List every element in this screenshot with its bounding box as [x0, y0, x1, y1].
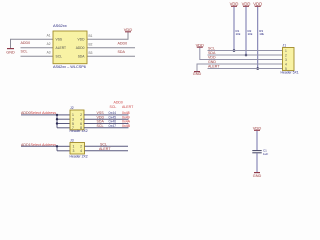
- wire J3 row2 right (ALERT): [85, 150, 129, 152]
- svg-text:2: 2: [80, 145, 82, 149]
- svg-text:AS62xx: AS62xx: [53, 23, 67, 28]
- svg-text:B2: B2: [89, 42, 93, 46]
- svg-text:2: 2: [285, 53, 287, 57]
- IC U1 AS62xx body: [53, 31, 87, 64]
- svg-text:J3: J3: [70, 139, 74, 143]
- wire VDD pin B1: [87, 32, 128, 40]
- wire GND rise: [197, 64, 283, 71]
- wire J2 row1 right (VSS): [84, 114, 129, 116]
- power VDD (feeds bus): [196, 42, 205, 47]
- svg-text:ADD0: ADD0: [114, 101, 123, 105]
- svg-text:A2: A2: [47, 42, 51, 46]
- wire row2 stub: [57, 150, 70, 152]
- svg-text:SDA: SDA: [78, 55, 86, 59]
- resistor R3 (vertical wire to ALERT): [257, 7, 259, 69]
- wire row1 stub: [57, 114, 70, 116]
- svg-text:J2: J2: [70, 106, 74, 110]
- wire ADD0 (left stub to A2): [21, 47, 54, 49]
- svg-text:ALERT: ALERT: [122, 105, 134, 109]
- svg-text:0x47: 0x47: [109, 124, 117, 128]
- junction bus row1: [56, 114, 58, 116]
- svg-text:GND: GND: [193, 72, 202, 76]
- svg-text:ADD0: ADD0: [21, 41, 31, 45]
- svg-text:VDD: VDD: [253, 1, 262, 6]
- capacitor C1: [252, 151, 261, 153]
- ground GND (left of U1): [6, 49, 15, 55]
- wire J2 row4 right (SCL): [84, 127, 129, 129]
- svg-text:7: 7: [72, 126, 74, 130]
- svg-text:SCL: SCL: [110, 105, 117, 109]
- svg-text:8: 8: [80, 126, 82, 130]
- svg-text:GND: GND: [253, 174, 262, 178]
- wire VDD drop: [200, 48, 283, 60]
- wire SDA row: [208, 54, 283, 56]
- svg-text:VDD: VDD: [124, 27, 133, 32]
- ground GND (below bus): [193, 72, 202, 77]
- wire SDA (right stub B3): [87, 55, 135, 57]
- svg-text:SCL: SCL: [100, 142, 107, 146]
- svg-text:4: 4: [285, 62, 287, 66]
- wire SCL row: [208, 50, 283, 52]
- wire row4 stub: [57, 127, 70, 129]
- junction bus row2: [56, 118, 58, 120]
- svg-text:AS62xx – WLCSP6: AS62xx – WLCSP6: [53, 65, 86, 69]
- power VDD (above R2): [242, 1, 251, 6]
- power VDD (above C1): [253, 126, 262, 131]
- svg-text:SDA: SDA: [208, 51, 216, 55]
- wire ADD1 into bus: [21, 145, 57, 147]
- svg-text:0x4B: 0x4B: [122, 124, 131, 128]
- power VDD (right of U1): [124, 27, 133, 32]
- svg-text:ALERT: ALERT: [56, 46, 67, 50]
- junction bus row3: [56, 122, 58, 124]
- svg-text:ALERT: ALERT: [99, 147, 111, 151]
- power VDD (above R1): [230, 1, 239, 6]
- svg-text:ADD0: ADD0: [76, 46, 85, 50]
- svg-text:J1: J1: [283, 44, 287, 48]
- junction bus: [56, 145, 58, 147]
- wire J3 row1 right (SCL): [85, 145, 129, 147]
- connector J1 body: [283, 48, 295, 71]
- resistor R2 (vertical wire to SDA): [245, 7, 247, 55]
- wire SCL (left stub to A3): [21, 55, 54, 57]
- svg-text:VDD: VDD: [242, 1, 251, 6]
- wire row2 stub: [57, 118, 70, 120]
- svg-text:4: 4: [80, 149, 82, 153]
- svg-text:SCL: SCL: [56, 55, 63, 59]
- junction on ALERT: [256, 67, 259, 70]
- svg-text:3: 3: [73, 149, 75, 153]
- svg-text:ALERT: ALERT: [208, 64, 220, 68]
- wire bus vertical: [56, 115, 58, 128]
- svg-text:B1: B1: [89, 34, 93, 38]
- svg-text:Header 2X2: Header 2X2: [70, 155, 88, 159]
- svg-text:SCL: SCL: [21, 49, 28, 53]
- svg-text:VSS: VSS: [56, 38, 63, 42]
- svg-text:ADD0: ADD0: [118, 42, 128, 46]
- ground GND (below C1): [253, 173, 262, 178]
- svg-text:SDA: SDA: [118, 50, 126, 54]
- power VDD (above R3): [253, 1, 262, 6]
- wire VDD to C1: [256, 131, 258, 151]
- wire row3 stub: [57, 123, 70, 125]
- svg-text:A1: A1: [47, 34, 51, 38]
- wire J2 row3 right (SDA): [84, 123, 129, 125]
- wire VSS pin A1: [11, 39, 54, 48]
- wire ALERT row: [208, 68, 283, 70]
- junction on SCL: [233, 49, 236, 52]
- svg-text:5: 5: [285, 67, 287, 71]
- wire C1 to GND: [256, 153, 258, 172]
- svg-text:GND: GND: [208, 60, 216, 64]
- svg-text:1: 1: [285, 49, 287, 53]
- wire bus vertical: [56, 146, 58, 151]
- svg-text:1uF: 1uF: [263, 152, 268, 156]
- svg-text:10k: 10k: [259, 32, 264, 36]
- svg-text:VDD: VDD: [230, 1, 239, 6]
- resistor R1 (vertical wire to SCL): [233, 7, 235, 51]
- svg-text:GND: GND: [6, 50, 15, 54]
- wire ADD0 into bus: [21, 114, 57, 116]
- header J2 body: [70, 110, 84, 130]
- junction on SDA: [245, 54, 248, 57]
- svg-text:VDD: VDD: [208, 55, 216, 59]
- svg-text:1: 1: [73, 145, 75, 149]
- svg-text:A3: A3: [47, 51, 51, 55]
- wire ADD0 (right stub B2): [87, 47, 135, 49]
- svg-text:SCL: SCL: [97, 124, 104, 128]
- svg-text:10k: 10k: [236, 32, 241, 36]
- svg-text:3: 3: [285, 58, 287, 62]
- header J3 body: [70, 143, 85, 155]
- wire J2 row2 right (VDD): [84, 118, 129, 120]
- svg-text:VDD: VDD: [78, 38, 86, 42]
- svg-text:SCL: SCL: [208, 46, 215, 50]
- svg-text:B3: B3: [89, 51, 93, 55]
- svg-text:Header 5X1: Header 5X1: [281, 70, 299, 74]
- svg-text:10k: 10k: [248, 32, 253, 36]
- wire row1 stub: [57, 145, 70, 147]
